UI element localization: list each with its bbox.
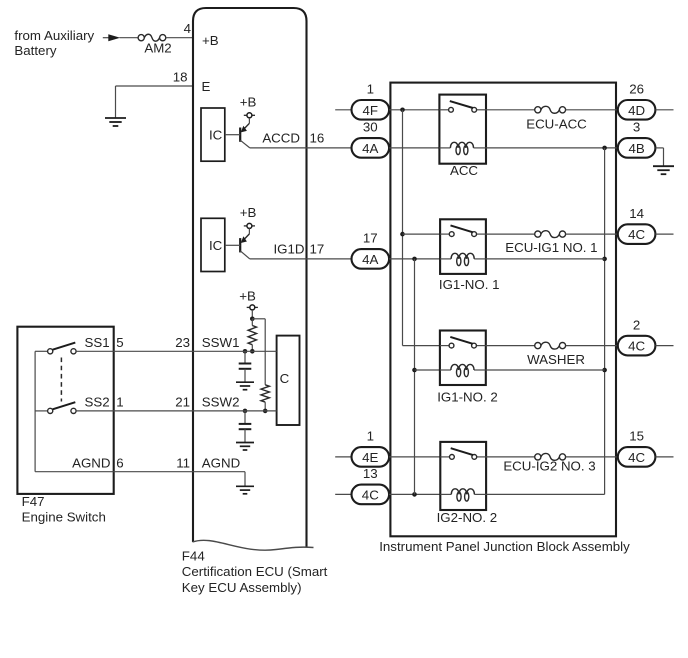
AGND ground drop <box>244 472 246 487</box>
svg-text:4E: 4E <box>362 450 378 465</box>
junction node at pull-up <box>250 317 255 322</box>
svg-text:6: 6 <box>116 455 123 470</box>
wire relay to fuse ECU-IG2 NO. 3 <box>486 456 535 458</box>
wire busA to IG1-NO.1 switch <box>403 233 441 235</box>
connector 4C pin 2 <box>618 317 656 355</box>
IC box (ACCD driver) <box>201 108 225 161</box>
svg-text:16: 16 <box>310 130 325 145</box>
relay IG2-NO.2 <box>440 442 486 510</box>
wire relay to fuse WASHER <box>486 345 535 347</box>
relay IG1-NO.2 <box>440 331 486 386</box>
resistor R2 (SSW2 pull-up) <box>261 385 269 411</box>
svg-text:+B: +B <box>240 94 257 109</box>
svg-text:from Auxiliary: from Auxiliary <box>14 28 94 43</box>
node right bus at IG1-NO.2 coil <box>602 368 607 373</box>
svg-text:AGND: AGND <box>72 455 110 470</box>
wire busB to IG1-NO.2 coil <box>415 369 440 371</box>
bus A vertical <box>403 110 440 346</box>
svg-text:15: 15 <box>629 429 644 444</box>
connector 4A pin 30 <box>352 120 390 158</box>
fuse WASHER <box>527 342 585 367</box>
wire fuse WASHER to connector <box>566 345 618 347</box>
svg-text:21: 21 <box>175 395 190 410</box>
connector 4F pin 1 <box>352 82 390 120</box>
node bus B at IG1-NO.2 coil <box>412 368 417 373</box>
transistor (ACCD output) <box>225 118 250 148</box>
svg-text:F47: F47 <box>22 494 45 509</box>
svg-text:IC: IC <box>209 238 223 253</box>
node bus B bottom <box>412 492 417 497</box>
wire fuse ECU-IG1 NO. 1 to connector <box>566 233 618 235</box>
svg-text:2: 2 <box>633 317 640 332</box>
+B terminal for ACCD transistor <box>240 94 257 117</box>
svg-text:IG1-NO. 1: IG1-NO. 1 <box>439 277 500 292</box>
node bus B top <box>412 257 417 262</box>
svg-text:ECU-IG2 NO. 3: ECU-IG2 NO. 3 <box>503 459 595 474</box>
svg-text:1: 1 <box>367 82 374 97</box>
+B terminal (SSW pull-up) <box>239 289 258 310</box>
wire AM2 to ECU pin 4 <box>166 21 193 38</box>
svg-text:4A: 4A <box>362 141 378 156</box>
svg-text:F44: F44 <box>182 548 205 563</box>
connector 4A pin 17 <box>352 231 390 269</box>
relay IG1-NO.1 <box>440 219 486 274</box>
svg-text:SSW1: SSW1 <box>202 335 240 350</box>
svg-text:4C: 4C <box>628 227 645 242</box>
svg-text:ECU-IG1 NO. 1: ECU-IG1 NO. 1 <box>505 240 597 255</box>
fuse ECU-IG1 NO. 1 <box>505 231 597 255</box>
ground at AGND <box>236 486 254 494</box>
node SSW2 junctions <box>243 409 268 414</box>
svg-text:AGND: AGND <box>202 455 240 470</box>
Instrument Panel Junction Block box <box>390 83 616 537</box>
svg-text:WASHER: WASHER <box>527 352 585 367</box>
svg-text:IC: IC <box>209 128 223 143</box>
stub right of 4C15 <box>655 456 673 458</box>
ECU F44 box (Certification ECU) <box>193 8 307 547</box>
connector 4C pin 13 <box>352 466 390 504</box>
svg-text:IG1-NO. 2: IG1-NO. 2 <box>437 390 498 405</box>
fuse ECU-ACC <box>526 106 587 131</box>
svg-text:3: 3 <box>633 120 640 135</box>
ground under C1 <box>236 382 254 390</box>
ground at pin E <box>105 118 126 126</box>
svg-text:ACC: ACC <box>450 163 478 178</box>
+B terminal for IG1D transistor <box>240 205 257 228</box>
switch common return wire <box>34 351 36 471</box>
svg-text:4A: 4A <box>362 252 378 267</box>
stub right of 4C14 <box>655 233 673 235</box>
svg-text:11: 11 <box>176 455 190 470</box>
wire ACCD to ECU pin 16 <box>250 130 352 148</box>
connector 4B pin 3 <box>618 120 656 158</box>
node SSW1 junctions <box>243 349 255 354</box>
wire 4E to IG2 switch <box>389 456 440 458</box>
node bus A top <box>400 108 405 113</box>
svg-text:SS1: SS1 <box>84 335 109 350</box>
stub to connector 4C13 <box>335 493 351 495</box>
wire fuse ECU-IG2 NO. 3 to connector <box>566 456 618 458</box>
svg-text:Instrument Panel Junction Bloc: Instrument Panel Junction Block Assembly <box>379 539 630 554</box>
relay ACC <box>439 95 486 164</box>
node bus A at IG1-NO.1 switch <box>400 232 405 237</box>
wire +B to junction <box>251 310 253 319</box>
svg-text:IG2-NO. 2: IG2-NO. 2 <box>437 510 498 525</box>
switch SS2 <box>35 402 76 413</box>
wire 4C13 to IG2 coil <box>389 493 440 495</box>
stub to connector 4E <box>335 456 351 458</box>
capacitor C1 on SSW1 <box>239 351 252 382</box>
IC box (IG1D driver) <box>201 218 225 271</box>
ground at 4B <box>653 166 674 174</box>
label: from Auxiliary Battery <box>14 28 94 58</box>
svg-text:4C: 4C <box>628 450 645 465</box>
ground under C2 <box>236 443 254 451</box>
stub to connector 4F <box>335 109 351 111</box>
stub right of 4D <box>655 109 673 111</box>
wire fuse ECU-ACC to connector <box>566 109 618 111</box>
arrow from battery <box>103 34 120 41</box>
node right bus at IG1 coil <box>602 257 607 262</box>
svg-text:1: 1 <box>116 395 123 410</box>
svg-text:SS2: SS2 <box>84 395 109 410</box>
svg-text:4B: 4B <box>628 141 644 156</box>
svg-text:E: E <box>202 79 211 94</box>
svg-text:AM2: AM2 <box>144 40 171 55</box>
svg-text:26: 26 <box>629 82 644 97</box>
svg-text:17: 17 <box>363 231 378 246</box>
right bus vertical <box>486 148 604 495</box>
wire SS2 to SSW2 <box>76 395 276 411</box>
svg-text:+B: +B <box>240 205 257 220</box>
resistor R1 (SSW1 pull-up) <box>248 319 256 352</box>
mechanical link (dashed) <box>60 358 62 402</box>
svg-text:4C: 4C <box>628 339 645 354</box>
wire IG1-NO.2 coil to right bus <box>486 369 605 371</box>
block C (comparator) <box>277 336 300 425</box>
wire arrow to fuse AM2 <box>120 37 139 39</box>
svg-text:Battery: Battery <box>14 43 56 58</box>
svg-text:C: C <box>280 371 290 386</box>
connector 4C pin 15 <box>618 429 656 467</box>
svg-text:Engine Switch: Engine Switch <box>22 510 106 525</box>
svg-text:Key ECU Assembly): Key ECU Assembly) <box>182 580 302 595</box>
connector 4E pin 1 <box>352 429 390 467</box>
wire branch to R2 <box>252 319 265 385</box>
capacitor C2 on SSW2 <box>239 411 252 443</box>
fuse AM2 <box>138 34 172 55</box>
svg-text:1: 1 <box>367 429 374 444</box>
svg-text:23: 23 <box>175 335 190 350</box>
bus B vertical <box>414 259 416 495</box>
svg-text:ACCD: ACCD <box>262 130 300 145</box>
svg-text:4D: 4D <box>628 103 645 118</box>
wire SS1 to SSW1 <box>76 335 276 351</box>
connector 4C pin 14 <box>618 206 656 244</box>
switch SS1 <box>35 343 76 354</box>
wire ACC coil to 4B <box>486 147 618 149</box>
wire relay to fuse ECU-IG1 NO. 1 <box>486 233 535 235</box>
fuse ECU-IG2 NO. 3 <box>503 453 595 473</box>
wire AGND to ECU <box>35 455 245 471</box>
svg-text:+B: +B <box>202 33 219 48</box>
label F47 Engine Switch <box>22 494 106 525</box>
svg-text:4C: 4C <box>362 487 379 502</box>
wire relay to fuse ECU-ACC <box>486 109 535 111</box>
svg-text:17: 17 <box>310 241 325 256</box>
svg-text:SSW2: SSW2 <box>202 395 240 410</box>
svg-text:Certification ECU (Smart: Certification ECU (Smart <box>182 564 328 579</box>
svg-text:+B: +B <box>239 289 256 304</box>
wire IG1 coil to right bus <box>486 258 605 260</box>
wire 4B to ground <box>655 148 663 166</box>
node right bus top <box>602 146 607 151</box>
svg-text:13: 13 <box>363 466 378 481</box>
svg-text:4: 4 <box>184 21 191 36</box>
svg-text:5: 5 <box>116 335 123 350</box>
wire ECU pin 18 E to ground <box>116 69 211 118</box>
wire IG1D to ECU pin 17 <box>250 241 352 259</box>
svg-text:14: 14 <box>629 206 644 221</box>
wire 4A17 to IG1 coil <box>389 258 440 260</box>
svg-text:ECU-ACC: ECU-ACC <box>526 117 587 132</box>
wire 4A to ACC coil <box>389 147 439 149</box>
connector 4D pin 26 <box>618 82 656 120</box>
wire 4F into block <box>389 109 439 111</box>
label F44 Certification ECU <box>182 548 328 595</box>
stub right of 4C2 <box>655 345 673 347</box>
transistor (IG1D output) <box>225 228 250 259</box>
svg-text:4F: 4F <box>363 103 379 118</box>
F47 Engine Switch box <box>17 327 113 494</box>
svg-text:IG1D: IG1D <box>273 241 304 256</box>
svg-text:30: 30 <box>363 120 378 135</box>
svg-text:18: 18 <box>173 69 188 84</box>
ECU bottom break wave <box>193 540 314 550</box>
